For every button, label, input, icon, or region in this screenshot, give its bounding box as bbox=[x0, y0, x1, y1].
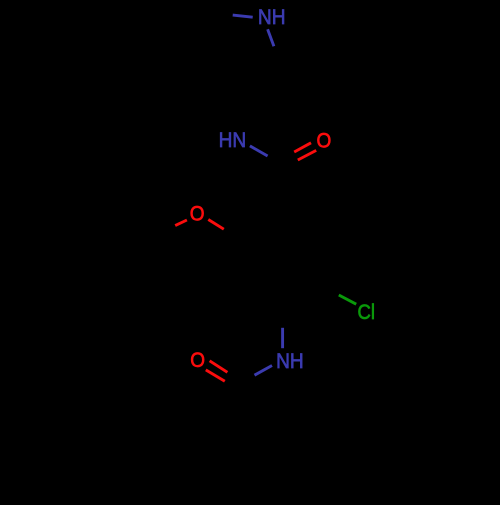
wire: double bond C=O upper line, O half bbox=[294, 143, 311, 152]
wire: bond N1-C5 (pyrrolidine), N half bbox=[268, 29, 274, 46]
wire: acetyl double bond C=O lower line, O half bbox=[206, 370, 225, 381]
svg-text:NH: NH bbox=[276, 349, 304, 373]
svg-text:O: O bbox=[317, 129, 332, 153]
wire: double bond C=O lower line, O half bbox=[298, 150, 316, 160]
node N2: amide HN label bbox=[219, 128, 247, 152]
node Cl1: chlorine label bbox=[358, 300, 376, 324]
wire: bond N3-C(=O) acetyl, N half bbox=[255, 366, 273, 376]
svg-text:O: O bbox=[190, 202, 205, 226]
svg-text:Cl: Cl bbox=[358, 300, 376, 324]
wire: bond O2-Caryl, O half bbox=[208, 220, 224, 230]
svg-text:O: O bbox=[190, 348, 205, 372]
wire: bond O2-CH3, O half bbox=[175, 220, 187, 226]
node O3: acetyl O label bbox=[190, 348, 205, 372]
wire: acetyl double bond C=O upper line, O half bbox=[210, 361, 228, 373]
wire: bond Caryl-Cl, Cl half bbox=[339, 295, 356, 304]
node O2: methoxy O label bbox=[190, 202, 205, 226]
node N1: ring NH label bbox=[258, 5, 286, 29]
svg-text:HN: HN bbox=[219, 128, 247, 152]
node O1: amide O label bbox=[317, 129, 332, 153]
svg-text:NH: NH bbox=[258, 5, 286, 29]
wire: bond N2-C(=O), N half bbox=[250, 146, 268, 156]
wire: bond Caryl-N3, N half bbox=[281, 328, 284, 348]
node N3: acetamide NH label bbox=[276, 349, 304, 373]
wire: bond C2-N1 (pyrrolidine), N half bbox=[233, 15, 253, 17]
